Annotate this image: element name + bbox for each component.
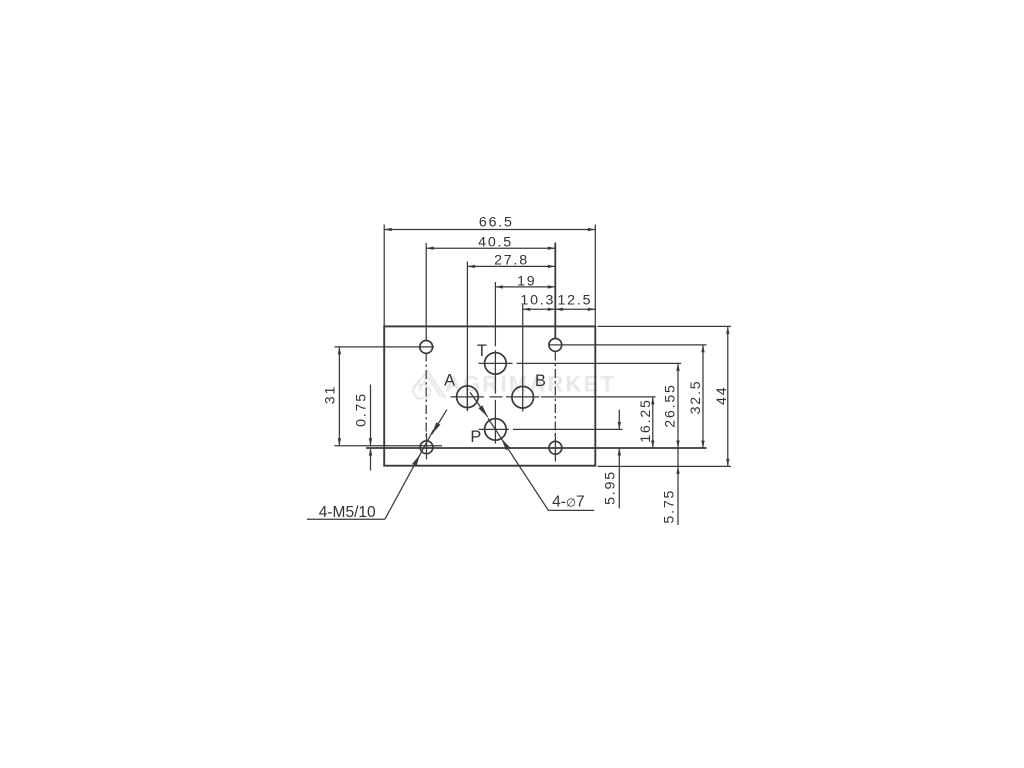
dimension line 32.5: [702, 345, 704, 448]
centerline A-B horizontal: [451, 396, 485, 398]
svg-text:A: A: [444, 372, 455, 390]
mounting hole bottom-left: [420, 441, 433, 454]
mounting hole bottom-right: [549, 441, 562, 454]
extension line plate top right (44): [598, 325, 732, 327]
extension line hole A (27.8): [466, 262, 468, 412]
extension line T row (26.55): [517, 362, 682, 364]
svg-text:27.8: 27.8: [494, 253, 529, 269]
dimension line 26.55: [677, 363, 679, 448]
dimension line 31: [338, 347, 340, 446]
svg-text:T: T: [477, 342, 487, 360]
svg-text:32.5: 32.5: [688, 380, 704, 415]
crosshair hole BR vertical: [554, 433, 556, 462]
svg-text:31: 31: [322, 385, 338, 404]
extension line P row (5.95): [513, 428, 623, 430]
leader arrow A to hole P: [470, 392, 488, 417]
dimension 0.75: [370, 385, 372, 446]
centerline left holes vertical: [425, 353, 427, 440]
svg-text:19: 19: [517, 273, 536, 289]
plate outline: [384, 326, 595, 465]
port hole A: [457, 386, 479, 408]
dimension line 66.5: [384, 229, 595, 231]
dimension line 12.5: [555, 308, 595, 310]
leader 4-M5/10: [307, 518, 385, 520]
crosshair P horizontal: [479, 428, 510, 430]
svg-text:5.95: 5.95: [603, 470, 619, 505]
svg-text:B: B: [535, 372, 546, 390]
svg-text:4-M5/10: 4-M5/10: [319, 504, 376, 521]
svg-text:P: P: [470, 428, 481, 446]
crosshair T horizontal: [479, 362, 513, 364]
mounting hole top-right: [549, 339, 562, 352]
dimension 5.75: [677, 448, 679, 525]
extension line hole B (10.3): [522, 305, 524, 412]
centerline T-P vertical: [494, 282, 496, 346]
svg-text:44: 44: [714, 386, 730, 405]
svg-text:5.75: 5.75: [661, 489, 677, 524]
extension line B row (16.25): [541, 396, 656, 398]
mounting hole top-left: [420, 341, 433, 354]
extension line plate bottom right (44/5.75): [598, 465, 732, 467]
port hole B: [512, 386, 534, 408]
extension line plate right (66.5/12.5): [594, 225, 596, 327]
port hole T: [485, 353, 507, 375]
dimension line 44: [727, 326, 729, 466]
dimension line 16.25: [652, 397, 654, 448]
svg-text:4-∅7: 4-∅7: [552, 494, 584, 511]
watermark logo: [413, 371, 446, 399]
leader arrow A to hole BL: [432, 410, 447, 435]
extension line hole TR (40.5/27.8/19/10.3/12.5): [554, 243, 556, 339]
extension line 31/0.75 boundary: [334, 445, 442, 447]
svg-text:66.5: 66.5: [479, 214, 514, 230]
crosshair A vertical: [466, 384, 468, 412]
dimension line 40.5: [426, 247, 555, 249]
dimension 5.95: [618, 410, 620, 430]
svg-text:16.25: 16.25: [638, 398, 654, 443]
crosshair hole BL vertical: [426, 433, 428, 460]
dimension line 19: [495, 286, 555, 288]
leader 4-diam7: [488, 418, 548, 510]
extension line hole TL (40.5): [425, 243, 427, 340]
svg-text:12.5: 12.5: [557, 292, 592, 308]
centerline right holes vertical: [554, 352, 556, 442]
extension line hole TR row (32.5): [549, 344, 707, 346]
extension line hole TL row (31): [334, 346, 434, 348]
port hole P: [485, 419, 507, 441]
svg-text:10.3: 10.3: [520, 292, 555, 308]
extension line plate left (66.5): [383, 225, 385, 327]
svg-text:26.55: 26.55: [662, 383, 678, 428]
svg-text:40.5: 40.5: [478, 235, 513, 251]
svg-text:0.75: 0.75: [354, 392, 370, 427]
centerline bottom hole row: [366, 447, 707, 449]
dimension line 10.3: [523, 308, 556, 310]
dimension line 27.8: [467, 265, 555, 267]
